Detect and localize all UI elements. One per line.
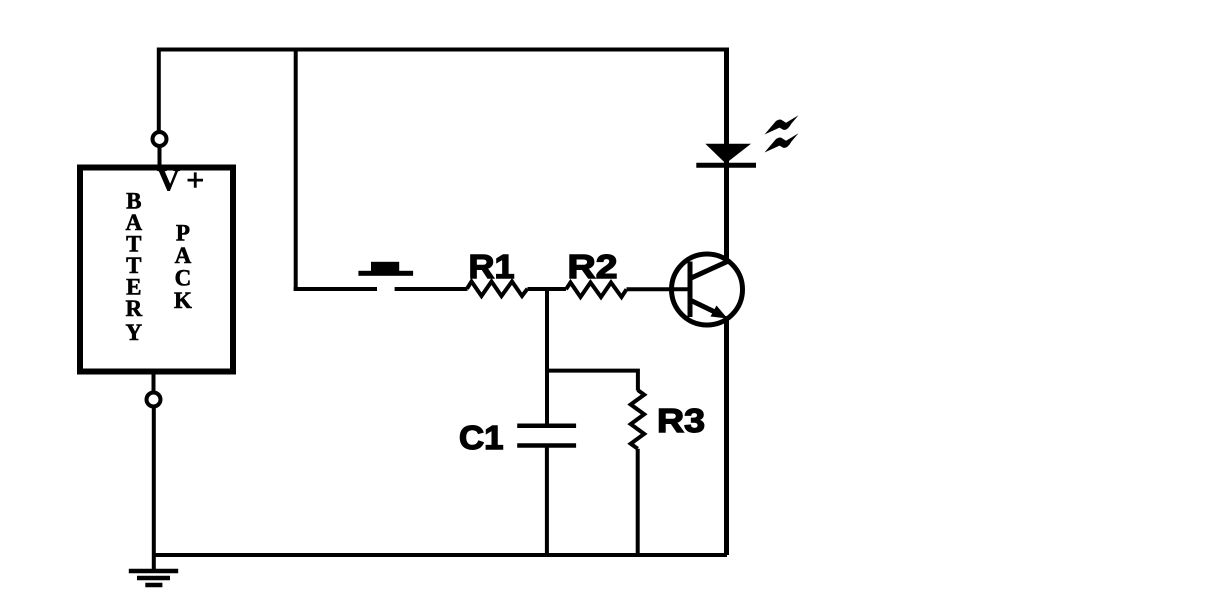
LED light arrow 2 bbox=[765, 133, 799, 152]
wire R2 to transistor base bbox=[627, 287, 691, 291]
wire top horizontal V+ rail bbox=[157, 48, 727, 52]
terminal (top battery contact circle) bbox=[153, 132, 167, 146]
wire branch to R3 bbox=[547, 371, 638, 391]
wire bottom terminal down to ground bbox=[152, 406, 156, 571]
transistor Q1 circle bbox=[672, 254, 743, 325]
svg-text:A: A bbox=[175, 243, 192, 268]
LED light arrow 1 bbox=[765, 115, 799, 134]
wire left vertical from top rail to battery terminal bbox=[157, 48, 161, 133]
wire switch branch vertical from top rail bbox=[294, 48, 298, 292]
LED D1 cathode bar bbox=[696, 163, 756, 168]
resistor R1 bbox=[467, 282, 528, 297]
svg-text:K: K bbox=[174, 288, 192, 313]
terminal (bottom battery contact circle) bbox=[147, 393, 161, 407]
svg-text:Y: Y bbox=[125, 320, 142, 345]
wire to switch left contact bbox=[294, 287, 377, 291]
transistor Q1 collector diagonal bbox=[690, 261, 729, 279]
wire stub terminal to battery box bbox=[158, 146, 162, 168]
svg-text:C: C bbox=[175, 266, 192, 291]
svg-text:P: P bbox=[176, 221, 190, 246]
wire C1 bottom to return rail bbox=[545, 448, 549, 556]
svg-text:R2: R2 bbox=[568, 248, 618, 285]
battery pack box B1 bbox=[80, 168, 233, 372]
wire bottom horizontal return rail bbox=[154, 553, 727, 557]
svg-text:C1: C1 bbox=[459, 419, 504, 456]
svg-text:V+: V+ bbox=[157, 162, 210, 198]
transistor Q1 emitter diagonal with arrow bbox=[690, 300, 718, 314]
wire R1 to R2 through node bbox=[528, 287, 567, 291]
ground bbox=[129, 571, 178, 585]
wire emitter vertical down to return rail bbox=[724, 316, 729, 555]
wire stub battery box to bottom terminal bbox=[152, 375, 156, 394]
wire collector vertical up to LED bbox=[724, 48, 729, 263]
svg-text:R3: R3 bbox=[657, 402, 705, 439]
svg-text:R1: R1 bbox=[469, 248, 515, 285]
svg-text:R: R bbox=[125, 296, 142, 321]
LED D1 triangle bbox=[705, 144, 751, 164]
wire switch right contact to R1 bbox=[395, 287, 468, 291]
switch S1 pushbutton bbox=[358, 262, 413, 276]
resistor R3 (vertical) bbox=[631, 390, 645, 449]
wire R3 bottom to return rail bbox=[636, 449, 640, 555]
transistor Q1 base bar bbox=[688, 262, 693, 318]
capacitor C1 bbox=[517, 426, 576, 446]
node junction wire down from R1/R2 to C1 bbox=[545, 289, 549, 424]
resistor R2 bbox=[566, 283, 627, 298]
